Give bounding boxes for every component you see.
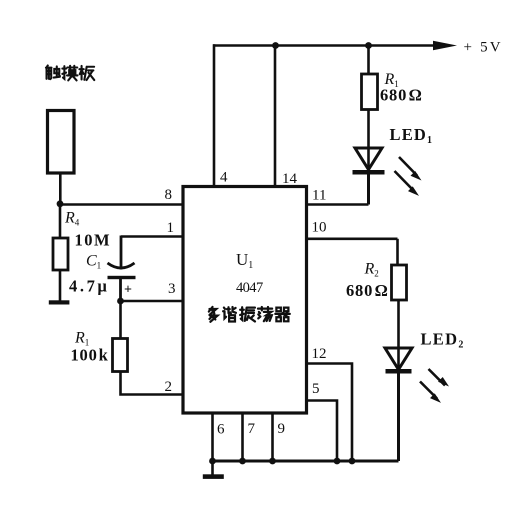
svg-text:4047: 4047	[236, 280, 263, 296]
svg-text:+: +	[124, 283, 132, 298]
label 触摸板 (touch pad)	[46, 66, 94, 81]
resistor R4	[53, 238, 68, 270]
svg-text:10: 10	[312, 220, 327, 236]
node rail-R1 junction	[365, 42, 372, 49]
wire pin 5	[307, 401, 338, 462]
node bus pin5	[334, 458, 341, 465]
svg-text:LED2: LED2	[421, 330, 465, 351]
wire pin 8	[60, 203, 183, 206]
svg-text:11: 11	[312, 188, 326, 204]
svg-text:4: 4	[220, 170, 228, 186]
wire junction to R1	[119, 301, 122, 339]
wire pin4 vertical	[213, 44, 216, 186]
wire R1 to LED1	[367, 110, 370, 171]
wire junction to R4	[59, 205, 62, 239]
ground (left)	[49, 300, 70, 304]
LED2 diode	[385, 348, 412, 461]
wire R2 to LED2	[397, 300, 400, 369]
wire pin 12	[307, 364, 353, 462]
svg-text:9: 9	[278, 421, 286, 437]
svg-text:7: 7	[248, 421, 256, 437]
svg-text:5: 5	[312, 381, 320, 397]
node bus pin7	[239, 458, 246, 465]
node bus pin9	[269, 458, 276, 465]
svg-text:4.7µ: 4.7µ	[69, 277, 110, 296]
wire pin 9	[271, 414, 274, 462]
svg-text:U1: U1	[236, 250, 253, 271]
LED1 light arrow b	[395, 171, 420, 196]
svg-text:14: 14	[282, 171, 298, 187]
wire pin 3	[121, 300, 184, 303]
label 多谐振荡器 (astable multivibrator)	[209, 307, 290, 322]
svg-text:6: 6	[217, 422, 225, 438]
wire ground stub	[211, 461, 214, 475]
wire pin14 vertical	[274, 44, 277, 186]
wire pin10 corner to R2	[396, 239, 399, 265]
svg-text:8: 8	[165, 187, 173, 203]
svg-text:C1: C1	[86, 253, 101, 271]
touch pad 触摸板	[48, 111, 75, 174]
svg-text:2: 2	[165, 379, 173, 395]
node rail-pin14 junction	[272, 42, 279, 49]
svg-text:680Ω: 680Ω	[380, 86, 423, 105]
ground (bottom)	[203, 474, 224, 479]
wire ground bus	[210, 460, 399, 463]
wire pin 6	[211, 414, 214, 462]
resistor R1 100k	[113, 339, 128, 372]
wire pin 7	[241, 414, 244, 462]
node bus pin12	[349, 458, 356, 465]
svg-text:12: 12	[312, 346, 327, 362]
LED1 light arrow a	[399, 157, 422, 181]
wire pin 1	[121, 235, 183, 238]
resistor R1 680ohm	[362, 74, 378, 110]
svg-text:LED1: LED1	[390, 125, 434, 146]
svg-text:100k: 100k	[71, 346, 109, 365]
svg-text:1: 1	[167, 220, 175, 236]
wire R1 to pin2 corner	[121, 372, 184, 395]
svg-text:R4: R4	[64, 210, 80, 228]
LED1 diode	[353, 148, 385, 205]
svg-text:R2: R2	[364, 261, 379, 279]
wire pin 11	[307, 203, 369, 206]
LED2 light arrow a	[429, 369, 450, 387]
wire touchpad to junction	[59, 173, 62, 204]
node bus pin6	[209, 458, 216, 465]
node touchpad/R4/pin8 junction	[57, 200, 64, 207]
power arrow +5V	[433, 41, 457, 51]
svg-text:3: 3	[168, 281, 176, 297]
wire pin 10	[307, 238, 398, 241]
svg-text:680Ω: 680Ω	[346, 281, 389, 300]
svg-text:+ 5V: + 5V	[464, 40, 503, 56]
op-amp U1 IC box	[183, 187, 307, 414]
wire R4 to ground	[59, 270, 62, 301]
wire +5V rail	[213, 44, 444, 47]
svg-text:10M: 10M	[75, 231, 112, 250]
wire rail to R1	[367, 46, 370, 75]
node C1/R1/pin3 junction	[117, 298, 124, 305]
capacitor C1	[108, 236, 136, 302]
resistor R2 680ohm	[392, 265, 407, 300]
LED2 light arrow b	[420, 382, 441, 403]
